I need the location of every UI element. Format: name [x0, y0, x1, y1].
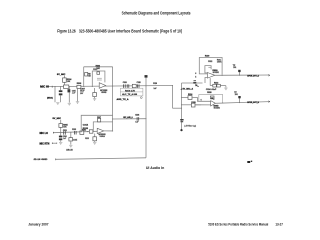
svg-text:10K: 10K — [63, 127, 67, 129]
svg-text:100K: 100K — [217, 62, 222, 64]
svg-text:1uF: 1uF — [154, 88, 158, 90]
svg-text:MIC LO: MIC LO — [40, 132, 49, 135]
svg-text:+ 5V_MIC_A: + 5V_MIC_A — [181, 88, 194, 91]
svg-text:16V: 16V — [80, 93, 84, 95]
svg-text:R310 4.7K: R310 4.7K — [125, 89, 136, 92]
svg-text:Schematic Diagrams and Compone: Schematic Diagrams and Component Layouts — [122, 10, 191, 15]
svg-text:MIC RTN: MIC RTN — [40, 142, 50, 145]
svg-text:1M: 1M — [88, 76, 91, 78]
svg-text:C316: C316 — [123, 82, 127, 84]
svg-text:C313: C313 — [72, 129, 76, 131]
svg-text:.1uF: .1uF — [63, 138, 66, 140]
svg-text:UI Audio In: UI Audio In — [146, 165, 165, 170]
svg-text:R306: R306 — [96, 65, 100, 67]
svg-text:C320: C320 — [153, 83, 157, 85]
svg-text:R326: R326 — [191, 102, 195, 104]
svg-text:AUD_RX: AUD_RX — [66, 149, 73, 152]
svg-text:R320: R320 — [205, 56, 209, 58]
svg-text:C324 .01uF: C324 .01uF — [206, 88, 217, 91]
svg-text:R324: R324 — [188, 93, 192, 96]
svg-text:13-27: 13-27 — [275, 223, 283, 227]
svg-text:5: 5 — [195, 77, 196, 79]
svg-text:R322: R322 — [214, 82, 218, 84]
svg-text:201: 201 — [233, 67, 236, 69]
svg-text:10K: 10K — [67, 81, 71, 83]
svg-text:Figure 13.26: Figure 13.26 — [57, 29, 76, 35]
svg-text:C311: C311 — [63, 130, 67, 132]
svg-text:5V_MIC: 5V_MIC — [53, 118, 62, 120]
svg-text:R311: R311 — [82, 130, 86, 132]
svg-text:January 2007: January 2007 — [28, 223, 48, 227]
svg-text:.1uF: .1uF — [72, 93, 76, 95]
svg-text:R313: R313 — [85, 138, 89, 140]
svg-text:C326: C326 — [135, 114, 139, 116]
svg-text:U300B: U300B — [101, 92, 107, 94]
svg-text:U300A: U300A — [100, 135, 106, 138]
svg-text:MIC_AUD_A: MIC_AUD_A — [123, 116, 133, 119]
svg-text:SPKR_OUT_B: SPKR_OUT_B — [247, 102, 259, 104]
svg-text:C315: C315 — [73, 140, 77, 142]
svg-text:R307: R307 — [97, 117, 101, 119]
svg-text:6: 6 — [195, 73, 196, 75]
svg-text:1uF: 1uF — [135, 121, 138, 123]
svg-text:(+5V Filter Cap): (+5V Filter Cap) — [184, 125, 196, 128]
svg-text:R328: R328 — [207, 92, 211, 94]
svg-text:5100 ES Series Portable Radio: 5100 ES Series Portable Radio Service Ma… — [208, 223, 268, 227]
svg-text:MC33202: MC33202 — [214, 108, 220, 110]
svg-text:J2-16 GND: J2-16 GND — [33, 159, 48, 161]
svg-text:C314: C314 — [83, 123, 88, 126]
svg-text:323-5500-480/485 User Interfac: 323-5500-480/485 User Interface Board Sc… — [79, 29, 182, 35]
svg-text:(MIC1): (MIC1) — [47, 98, 53, 100]
svg-text:C312: C312 — [93, 69, 97, 71]
svg-text:C322: C322 — [208, 61, 212, 63]
svg-text:R315: R315 — [83, 128, 88, 130]
svg-text:R308: R308 — [77, 83, 82, 85]
svg-text:MC33202: MC33202 — [213, 72, 219, 74]
svg-text:6: 6 — [201, 99, 202, 101]
svg-text:201: 201 — [235, 94, 238, 96]
svg-text:C318: C318 — [137, 82, 141, 84]
svg-text:MIC HI: MIC HI — [40, 86, 49, 89]
svg-text:AUD_TX_A: AUD_TX_A — [117, 98, 130, 101]
svg-text:SPKR_OUT_A: SPKR_OUT_A — [247, 74, 259, 77]
svg-text:ALC_TX_A 600: ALC_TX_A 600 — [122, 93, 137, 96]
